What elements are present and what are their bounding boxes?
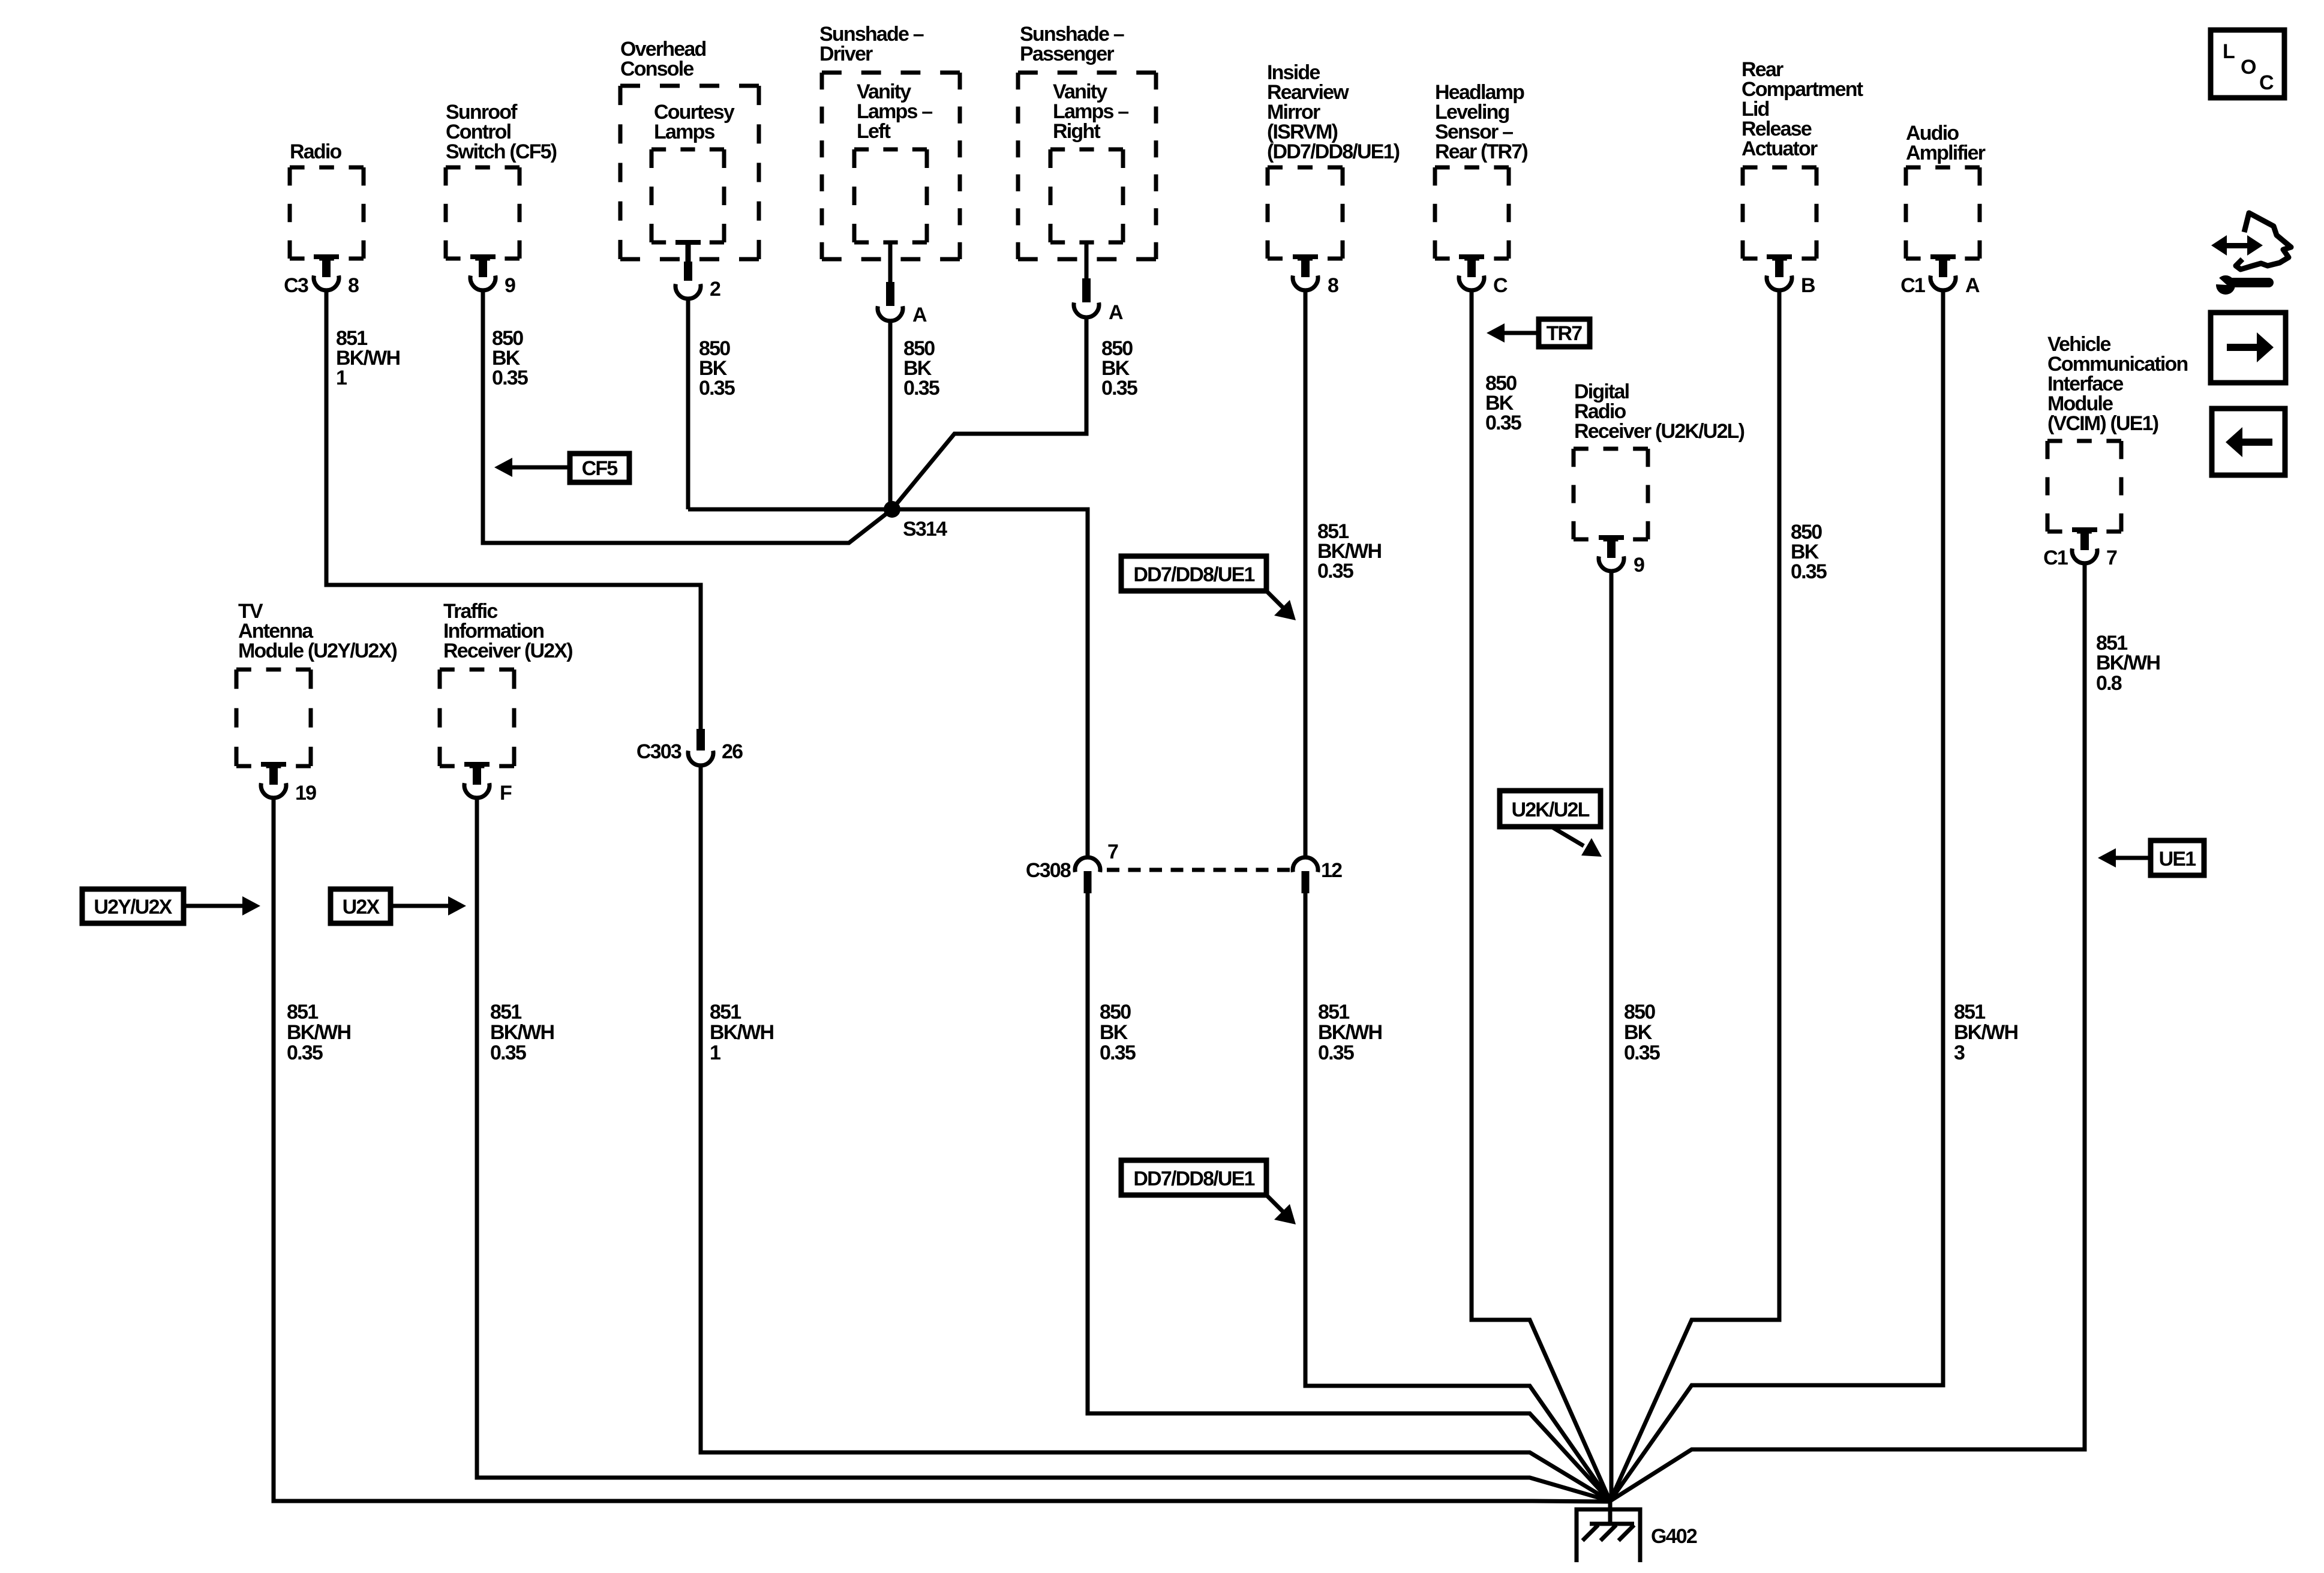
svg-text:0.35: 0.35 — [1624, 1041, 1660, 1064]
svg-text:Passenger: Passenger — [1020, 43, 1114, 65]
wire S314 to C308 pin 7 — [892, 509, 1088, 859]
wire C308-12 to ground — [1305, 893, 1610, 1501]
svg-text:0.35: 0.35 — [1101, 377, 1137, 400]
svg-text:C303: C303 — [636, 740, 681, 763]
label 850 BK 0.35 (rear lid) — [1791, 521, 1827, 583]
connector pin 9 (Digital Radio) — [1599, 535, 1624, 571]
sunshade passenger outer dashed box — [1018, 73, 1156, 259]
svg-text:8: 8 — [348, 274, 359, 297]
svg-text:Radio: Radio — [290, 140, 341, 163]
sunroof dashed box — [446, 167, 520, 259]
svg-text:0.35: 0.35 — [1791, 560, 1827, 583]
svg-text:19: 19 — [295, 782, 316, 804]
svg-text:0.35: 0.35 — [287, 1041, 323, 1064]
svg-text:2: 2 — [710, 278, 720, 301]
label 850 BK 0.35 (driver) — [903, 337, 939, 400]
wire VCIM to ground — [1610, 565, 2085, 1501]
icon wrench — [2216, 275, 2235, 295]
svg-text:1: 1 — [336, 367, 347, 389]
svg-text:26: 26 — [722, 740, 743, 763]
icon head outline — [2236, 213, 2291, 269]
svg-text:0.35: 0.35 — [903, 377, 939, 400]
wire sunroof 850 to S314 — [483, 291, 892, 543]
svg-text:BK/WH: BK/WH — [490, 1021, 554, 1044]
ground bracket — [1577, 1509, 1640, 1562]
label 850 BK 0.35 (sunroof) — [492, 327, 528, 389]
label 850 BK 0.35 (headlamp) — [1485, 372, 1521, 434]
svg-text:850: 850 — [1624, 1001, 1655, 1023]
wire radio ground 851 to C303 — [326, 291, 701, 729]
label CF5 box and arrow — [494, 454, 629, 482]
label U2Y/U2X box and arrow — [82, 889, 260, 923]
connector pin 8 (ISRVM) — [1293, 254, 1318, 290]
wire traffic receiver to ground — [477, 796, 1610, 1501]
wire ISRVM 851 to C308 pin 12 — [1304, 291, 1308, 859]
data link connector icon — [2208, 213, 2291, 295]
wire C303 to ground run 851 — [701, 764, 1610, 1501]
ground rake — [1590, 1522, 1634, 1526]
svg-text:851: 851 — [1318, 1001, 1349, 1023]
connector C3 pin 8 (Radio) — [314, 254, 339, 290]
label 850 BK 0.35 (passenger) — [1101, 337, 1137, 400]
connector pin 19 (TV Antenna) — [261, 762, 286, 798]
svg-text:C308: C308 — [1026, 859, 1071, 882]
svg-text:0.35: 0.35 — [699, 377, 735, 400]
svg-text:DD7/DD8/UE1: DD7/DD8/UE1 — [1133, 563, 1254, 586]
courtesy lamps inner dashed box — [651, 149, 724, 242]
label 851 BK/WH 1 (radio) — [336, 327, 400, 389]
svg-text:C3: C3 — [284, 274, 308, 297]
svg-text:Actuator: Actuator — [1742, 137, 1818, 160]
svg-text:0.8: 0.8 — [2096, 672, 2122, 695]
svg-text:851: 851 — [710, 1001, 741, 1023]
svg-text:G402: G402 — [1651, 1525, 1697, 1548]
svg-text:7: 7 — [1107, 840, 1118, 863]
svg-text:A: A — [912, 304, 927, 326]
wire digital radio to ground — [1610, 572, 1614, 1501]
connector C1 pin A (Audio Amplifier) — [1930, 254, 1956, 290]
label DD7/DD8/UE1 box 2 with arrow — [1121, 1160, 1296, 1224]
svg-text:BK/WH: BK/WH — [710, 1021, 773, 1044]
svg-text:Amplifier: Amplifier — [1906, 142, 1986, 164]
svg-text:DD7/DD8/UE1: DD7/DD8/UE1 — [1133, 1167, 1254, 1190]
icon double arrow — [2221, 243, 2253, 248]
overhead console outer dashed box — [620, 86, 759, 259]
ISRVM dashed box — [1268, 167, 1343, 259]
svg-text:S314: S314 — [903, 518, 947, 541]
VCIM dashed box — [2047, 441, 2121, 532]
audio amplifier dashed box — [1906, 167, 1980, 259]
connector pin F (Traffic Receiver) — [464, 762, 490, 798]
TV antenna dashed box — [236, 670, 311, 766]
svg-text:0.35: 0.35 — [1317, 560, 1353, 583]
label DD7/DD8/UE1 box 1 with arrow — [1121, 556, 1296, 620]
svg-text:12: 12 — [1321, 859, 1342, 882]
vanity lamps right inner dashed box — [1050, 149, 1123, 242]
connector pin C (Headlamp Sensor) — [1459, 254, 1484, 290]
in-line connector A (Sunshade Driver) — [878, 282, 903, 321]
ground center wire — [1608, 1500, 1613, 1524]
vanity lamps left inner dashed box — [854, 149, 927, 242]
svg-text:Lamps: Lamps — [654, 121, 714, 143]
wire sunshade passenger 850 to S314 — [892, 317, 1086, 509]
svg-text:3: 3 — [1954, 1041, 1965, 1064]
svg-text:Console: Console — [620, 58, 693, 80]
svg-text:U2Y/U2X: U2Y/U2X — [94, 896, 172, 918]
svg-text:0.35: 0.35 — [1318, 1041, 1354, 1064]
svg-text:TR7: TR7 — [1547, 322, 1583, 345]
svg-text:BK: BK — [1100, 1021, 1128, 1044]
svg-text:BK/WH: BK/WH — [287, 1021, 350, 1044]
svg-text:9: 9 — [1634, 554, 1644, 577]
svg-text:A: A — [1965, 274, 1980, 297]
svg-text:BK/WH: BK/WH — [1954, 1021, 2017, 1044]
label 851 BK/WH 0.35 (TV lower) — [287, 1001, 350, 1064]
left arrow box — [2212, 409, 2285, 475]
svg-text:0.35: 0.35 — [1485, 412, 1521, 434]
svg-text:Switch (CF5): Switch (CF5) — [446, 140, 557, 163]
wire S314 junction to overhead stub — [688, 508, 892, 512]
svg-text:0.35: 0.35 — [1100, 1041, 1136, 1064]
svg-text:Receiver (U2K/U2L): Receiver (U2K/U2L) — [1574, 420, 1744, 443]
svg-text:851: 851 — [287, 1001, 318, 1023]
svg-text:CF5: CF5 — [582, 457, 618, 480]
connector pin B (Rear Lid Actuator) — [1767, 254, 1792, 290]
in-line connector C308 pin 7 — [1075, 857, 1100, 872]
svg-text:U2X: U2X — [343, 896, 380, 918]
svg-text:BK/WH: BK/WH — [2096, 652, 2160, 674]
radio dashed box — [290, 167, 364, 259]
label 851 BK/WH 0.35 (C308-12 lower) — [1318, 1001, 1382, 1064]
node S314 — [884, 501, 900, 518]
label 850 BK 0.35 (digital radio wire) — [1624, 1001, 1660, 1064]
right arrow box — [2211, 313, 2286, 383]
label 851 BK/WH 1 (C303 lower) — [710, 1001, 773, 1064]
svg-text:0.35: 0.35 — [492, 367, 528, 389]
label U2K/U2L box with arrow — [1500, 791, 1602, 857]
svg-text:Receiver (U2X): Receiver (U2X) — [443, 640, 572, 662]
svg-text:Module (U2Y/U2X): Module (U2Y/U2X) — [238, 640, 397, 662]
svg-text:(DD7/DD8/UE1): (DD7/DD8/UE1) — [1267, 140, 1400, 163]
headlamp sensor dashed box — [1435, 167, 1509, 259]
svg-text:7: 7 — [2106, 547, 2117, 569]
wire audio amplifier to ground — [1610, 291, 1943, 1501]
svg-text:9: 9 — [505, 274, 515, 297]
connector pin 2 (Overhead Console) — [675, 240, 701, 299]
svg-text:BK/WH: BK/WH — [1318, 1021, 1382, 1044]
svg-text:U2K/U2L: U2K/U2L — [1511, 798, 1589, 821]
label 851 BK/WH 0.35 (ISRVM) — [1317, 520, 1381, 583]
svg-text:O: O — [2241, 56, 2256, 79]
in-line connector A (Sunshade Passenger) — [1074, 278, 1099, 317]
label TR7 box and arrow — [1487, 319, 1590, 347]
svg-text:1: 1 — [710, 1041, 720, 1064]
svg-text:C1: C1 — [1900, 274, 1925, 297]
label 850 BK 0.35 (overhead) — [699, 337, 735, 400]
svg-text:851: 851 — [490, 1001, 521, 1023]
wire sunshade driver 850 to S314 — [888, 320, 893, 509]
svg-text:C: C — [2259, 71, 2274, 94]
svg-text:Rear (TR7): Rear (TR7) — [1435, 140, 1527, 163]
svg-text:851: 851 — [1954, 1001, 1985, 1023]
svg-text:B: B — [1801, 274, 1815, 297]
wire overhead console 850 to S314 — [686, 298, 690, 509]
wire C308-7 to ground — [1088, 893, 1610, 1501]
in-line connector C308 pin 12 — [1293, 857, 1318, 872]
svg-text:C: C — [1493, 274, 1508, 297]
svg-text:850: 850 — [1100, 1001, 1131, 1023]
label 851 BK/WH 0.35 (Traffic lower) — [490, 1001, 554, 1064]
svg-text:Driver: Driver — [819, 43, 873, 65]
dashed link C308 7 to 12 — [1107, 868, 1290, 872]
wire rear lid actuator to ground — [1610, 291, 1779, 1501]
connector C1 pin 7 (VCIM) — [2072, 527, 2097, 563]
svg-text:UE1: UE1 — [2159, 848, 2196, 870]
wire from inner box to connector — [888, 242, 893, 282]
wire TV antenna to ground — [274, 796, 1610, 1502]
svg-text:A: A — [1109, 301, 1123, 324]
rear lid actuator dashed box — [1743, 167, 1816, 259]
in-line connector C303 pin 26 — [696, 729, 705, 751]
svg-text:(VCIM) (UE1): (VCIM) (UE1) — [2047, 412, 2158, 435]
svg-text:F: F — [500, 782, 512, 804]
label U2X box and arrow — [331, 889, 466, 923]
digital radio dashed box — [1574, 449, 1648, 539]
LOC reference box — [2211, 30, 2284, 98]
svg-text:Right: Right — [1053, 120, 1100, 143]
svg-text:8: 8 — [1328, 274, 1338, 297]
svg-text:Left: Left — [857, 120, 891, 143]
connector pin 9 (Sunroof) — [470, 254, 496, 290]
label 851 BK/WH 3 (audio lower) — [1954, 1001, 2017, 1064]
wire from inner box to connector — [1085, 242, 1089, 278]
sunshade driver outer dashed box — [822, 73, 960, 259]
traffic receiver dashed box — [440, 670, 514, 766]
label 850 BK 0.35 (C308-7 lower) — [1100, 1001, 1136, 1064]
label 851 BK/WH 0.8 (VCIM) — [2096, 632, 2160, 695]
svg-text:L: L — [2223, 40, 2235, 63]
svg-text:0.35: 0.35 — [490, 1041, 526, 1064]
svg-text:BK: BK — [1624, 1021, 1653, 1044]
label UE1 box and arrow — [2098, 840, 2204, 875]
wire headlamp sensor to ground — [1472, 291, 1610, 1501]
svg-text:C1: C1 — [2043, 547, 2068, 569]
